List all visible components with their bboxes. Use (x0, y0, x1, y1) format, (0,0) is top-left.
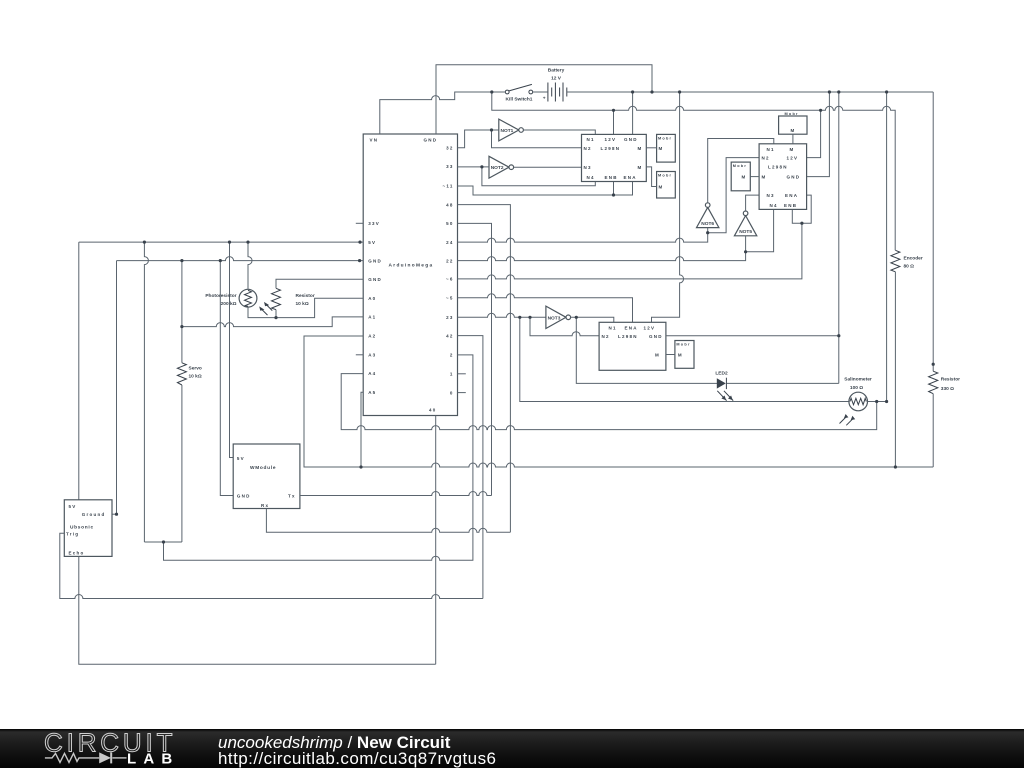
svg-text:Photoresistor: Photoresistor (205, 293, 236, 299)
wire pin33 to NOT2 input (458, 166, 490, 168)
svg-text:M: M (655, 352, 660, 357)
svg-text:NOT5: NOT5 (739, 229, 752, 235)
wire NOT5 node to L298N2 N4 (746, 209, 774, 251)
junction R330 top (932, 363, 935, 366)
junction A1 servo node (180, 325, 183, 328)
svg-text:33: 33 (446, 164, 454, 169)
svg-text:Mobr: Mobr (658, 137, 672, 141)
svg-text:GND: GND (787, 175, 801, 180)
wire salinometer right to GND bus (868, 401, 887, 403)
svg-text:A2: A2 (368, 334, 376, 339)
resistor R4 Servo (177, 363, 202, 385)
wire Arduino GND top to battery minus (436, 65, 652, 134)
svg-text:2: 2 (450, 353, 454, 358)
svg-text:0: 0 (450, 390, 454, 395)
svg-text:Tx: Tx (288, 494, 296, 499)
wire GND rail to L298N2 GND pin (807, 92, 830, 177)
wire battery minus GND rail (567, 91, 933, 93)
svg-text:GND: GND (624, 137, 638, 142)
wire NOT1 input node down to L298N1 N2 (492, 130, 582, 148)
svg-text:A5: A5 (368, 390, 376, 395)
svg-text:N3: N3 (584, 165, 592, 170)
inverter NOT5 (734, 211, 756, 236)
wire pin ~5 to L298N3 ENA (458, 294, 633, 323)
motor driver U4 L298N (599, 322, 666, 370)
svg-text:~5: ~5 (446, 296, 454, 301)
wire 5V down to Ultrasonic (78, 242, 80, 500)
motor driver U2 L298N (582, 134, 647, 181)
svg-text:GND: GND (424, 137, 438, 142)
wire pin40 down (435, 416, 437, 665)
svg-text:VN: VN (370, 137, 379, 142)
junction ultrasonic ground (115, 513, 118, 516)
wire L298N1 M1 to motor M1 (646, 147, 656, 149)
svg-text:Mobr: Mobr (658, 174, 672, 178)
svg-text:N2: N2 (584, 146, 592, 151)
wire 12V rail to L298N2 12V pin (807, 110, 821, 157)
svg-text:N4: N4 (587, 175, 595, 180)
svg-text:Trig: Trig (66, 532, 79, 537)
wire R330 bottom to A2 A5 net (932, 394, 934, 467)
svg-text:48: 48 (446, 202, 454, 207)
svg-text:12V: 12V (605, 137, 617, 142)
wire motor M3 to L298N2 M left (750, 176, 759, 178)
svg-text:LED2: LED2 (715, 371, 728, 377)
svg-text:A4: A4 (368, 371, 376, 376)
svg-text:GND: GND (368, 277, 382, 282)
junction GND row servo (180, 259, 183, 262)
svg-text:ENB: ENB (784, 203, 797, 208)
svg-text:N1: N1 (767, 147, 775, 152)
junction L298N3 GND bus (837, 334, 840, 337)
motor M3 (731, 162, 750, 191)
svg-text:80 Ω: 80 Ω (904, 263, 915, 269)
svg-text:M: M (678, 352, 683, 357)
wire GND rail to L298N3 12V pin (652, 92, 684, 322)
junction salinometer A4 bus (875, 400, 878, 403)
wire NOT2 output to L298N1 N3 (514, 166, 582, 168)
wire Ultrasonic Echo to pin40 (79, 556, 436, 664)
junction NOT2 input node (480, 165, 483, 168)
footer url text (218, 749, 496, 768)
wire NOT1 output to L298N1 N1 (523, 130, 595, 134)
svg-text:L298N: L298N (601, 146, 621, 151)
junction 5V row photoresistor (246, 241, 249, 244)
photoresistor R5 (205, 289, 272, 315)
svg-text:N4: N4 (770, 203, 778, 208)
svg-text:Mobr: Mobr (676, 343, 690, 347)
switch SW1 Kill Switch1 (505, 84, 532, 102)
wire GND branch to WModule GND (220, 261, 233, 496)
motor M1 (657, 134, 676, 162)
svg-text:+: + (543, 96, 546, 101)
wire NOT6 node to L298N2 N2 (708, 158, 759, 233)
wire pin32 to NOT1 input and N2 (458, 130, 499, 148)
wire ENB riser (613, 182, 615, 196)
svg-text:GND: GND (649, 334, 663, 339)
junction 5V row branch A (143, 241, 146, 244)
inverter NOT1 (499, 119, 524, 141)
motor M5 (779, 112, 807, 134)
wire pin50 down (458, 223, 492, 495)
junction NOT6 input node (706, 231, 709, 234)
junction battery plus to 12V rail (490, 90, 493, 93)
junction encoder bottom (894, 465, 897, 468)
svg-text:Encoder: Encoder (904, 255, 923, 261)
pin stub 0 (458, 392, 466, 394)
wire L298N1 M2 to motor M2 (646, 167, 656, 187)
LED LED2 (715, 371, 733, 401)
svg-text:1: 1 (450, 372, 454, 377)
wire pin23 node down to salinometer left (520, 317, 849, 401)
svg-text:40: 40 (429, 408, 437, 413)
wire 5V row (79, 241, 363, 243)
svg-text:NOT1: NOT1 (501, 128, 514, 134)
svg-text:32: 32 (446, 145, 454, 150)
wire GND down to Ultrasonic Ground (116, 261, 118, 515)
junction 5V row WModule (228, 241, 231, 244)
svg-text:GND: GND (237, 494, 251, 499)
svg-text:Ubsonic: Ubsonic (70, 525, 94, 531)
wire A4 bus to salinometer node (341, 374, 877, 430)
svg-text:Mobr: Mobr (733, 164, 747, 168)
wire photoresistor bottom to A0 (248, 298, 363, 317)
inverter NOT3 (546, 306, 571, 328)
svg-text:Mobr: Mobr (785, 112, 799, 116)
svg-text:LAB: LAB (127, 751, 172, 768)
svg-text:5V: 5V (69, 504, 77, 509)
junction 12V rail L298N1 (612, 109, 615, 112)
wire pin48 down (458, 205, 511, 533)
wire pin24 to NOT6 node (458, 233, 708, 242)
wire Ultrasonic Ground stub (112, 513, 117, 515)
svg-text:A0: A0 (368, 296, 376, 301)
wire L298N1 GND riser (632, 92, 634, 134)
wire L298N1 12V riser (613, 110, 615, 134)
junction GND rail L298N1 GND (631, 90, 634, 93)
svg-text:WModule: WModule (250, 465, 276, 471)
wire pin42 down to Trig (458, 336, 483, 599)
svg-text:A3: A3 (368, 352, 376, 357)
junction NOT5 input node (744, 250, 747, 253)
svg-text:Echo: Echo (69, 551, 85, 556)
svg-text:10 kΩ: 10 kΩ (296, 301, 309, 307)
svg-text:23: 23 (446, 315, 454, 320)
svg-text:NOT6: NOT6 (701, 221, 714, 227)
svg-text:Resistor: Resistor (941, 376, 960, 382)
svg-text:N3: N3 (767, 193, 775, 198)
junction A5 join (359, 465, 362, 468)
wire GND row to servo top (181, 261, 183, 363)
svg-text:24: 24 (446, 240, 454, 245)
wire pin ~11 to L298N1 ENB ENA (458, 182, 633, 196)
wire WModule Tx to pin50 (300, 492, 492, 496)
junction GND rail bus B (885, 90, 888, 93)
svg-text:M: M (638, 146, 643, 151)
svg-text:33V: 33V (368, 221, 380, 226)
resistor R6 10k (272, 288, 315, 309)
svg-text:Kill Switch1: Kill Switch1 (506, 97, 533, 103)
junction A0 resistor node (274, 316, 277, 319)
wire L298N3 GND to bus (666, 335, 839, 337)
photoresistor salinometer R1 (840, 376, 872, 425)
junction 5V pin terminal (358, 241, 361, 244)
wire NOT5 output to L298N2 N3 (746, 195, 760, 211)
svg-text:M: M (790, 147, 795, 152)
svg-text:ArduinoMega: ArduinoMega (389, 262, 434, 268)
junction ENB tie (612, 193, 615, 196)
svg-text:L298N: L298N (618, 334, 638, 339)
svg-text:ENA: ENA (625, 326, 638, 331)
wire NOT6 input stub (707, 228, 709, 233)
svg-text:M: M (638, 165, 643, 170)
wire 10k bottom join (275, 310, 277, 318)
wire NOT5 input stub (745, 236, 747, 252)
pin stub A3 (356, 354, 363, 356)
svg-text:A1: A1 (368, 315, 376, 320)
wire pin ~6 to L298N2 ENA ENB (458, 223, 802, 279)
svg-text:5V: 5V (237, 456, 245, 461)
module U5 WModule (233, 444, 300, 509)
wire 5V branch to WModule 5V (230, 242, 234, 457)
wire 5V branch to servo U node (144, 242, 148, 542)
wire NOT2 input node down to L298N1 N4 (482, 167, 595, 186)
junction GND rail Arduino GND (650, 90, 653, 93)
svg-text:NOT3: NOT3 (548, 315, 561, 321)
junction GND rail L298N2 GND (828, 90, 831, 93)
junction NOT1 input node (490, 128, 493, 131)
wire 10k top to GND2 (276, 279, 363, 288)
wire pin23 node to L298N3 N2 (530, 317, 599, 335)
wire LED2 cathode to GND bus (727, 382, 839, 384)
svg-text:NOT2: NOT2 (491, 165, 504, 171)
inverter NOT6 (697, 203, 719, 228)
svg-text:50: 50 (446, 221, 454, 226)
svg-text:~11: ~11 (442, 184, 453, 189)
wire GND bus to LED2 cathode and L298N3 GND (838, 92, 840, 383)
pin stub 1 (458, 373, 466, 375)
svg-text:ENB: ENB (605, 175, 618, 180)
wire A5 join (361, 392, 363, 467)
wire Ultrasonic Trig to pin42 (60, 533, 483, 598)
svg-text:10 kΩ: 10 kΩ (189, 374, 202, 380)
svg-text:200 kΩ: 200 kΩ (221, 301, 237, 307)
junction pin23 node A (518, 316, 521, 319)
wire L298N2 ENA ENB tie (792, 195, 811, 223)
svg-text:M: M (791, 128, 796, 133)
wire pin22 to NOT5 node (458, 252, 746, 261)
svg-text:GND: GND (368, 258, 382, 263)
svg-text:12V: 12V (644, 326, 656, 331)
wire GND row (117, 257, 364, 261)
svg-text:M: M (659, 146, 664, 151)
footer bar (0, 729, 1024, 768)
module U6 Ultrasonic (64, 500, 112, 557)
resistor R2 Encoder (891, 250, 923, 271)
wire L298N2 M top to motor M5 (792, 134, 794, 144)
svg-text:ENA: ENA (785, 193, 798, 198)
wire NOT3 output to L298N3 N1 (571, 317, 614, 322)
svg-text:42: 42 (446, 333, 454, 338)
wire 12V rail (492, 92, 895, 250)
junction GND rail bus A (837, 90, 840, 93)
svg-text:22: 22 (446, 258, 454, 263)
junction ENA ENB tie L298N2 (800, 222, 803, 225)
svg-text:5V: 5V (368, 240, 376, 245)
svg-text:12V: 12V (787, 156, 799, 161)
junction GND row WModule (219, 259, 222, 262)
wire NOT3 output node down to LED2 anode (576, 317, 717, 383)
junction servo 5V U node (162, 540, 165, 543)
footer logo CIRCUIT LAB (0, 729, 220, 768)
svg-text:Ground: Ground (82, 512, 106, 517)
wire 5V to photoresistor top (248, 242, 252, 289)
svg-text:M: M (762, 175, 767, 180)
svg-text:Salinometer: Salinometer (844, 376, 872, 382)
svg-text:N2: N2 (602, 334, 610, 339)
microcontroller U1 ArduinoMega (363, 134, 457, 416)
svg-text:Servo: Servo (189, 366, 202, 372)
junction GND rail L298N3 branch (678, 90, 681, 93)
junction NOT3 output node (575, 316, 578, 319)
wire servo bottom to U node (181, 385, 183, 542)
svg-text:Resistor: Resistor (296, 293, 315, 299)
pin stub 33V (356, 222, 363, 224)
svg-text:N2: N2 (762, 156, 770, 161)
wire U bottom (144, 541, 182, 543)
motor M2 (657, 172, 676, 199)
wire A1 to servo node (182, 317, 363, 327)
footer title text (218, 733, 450, 753)
svg-text:Battery: Battery (548, 67, 565, 73)
junction 12V rail L298N2 (819, 109, 822, 112)
wire pin23 to NOT3 input (458, 313, 546, 317)
battery BAT1 (543, 67, 567, 101)
junction salinometer GND bus (885, 400, 888, 403)
svg-text:N1: N1 (587, 137, 595, 142)
wire A2 to encoder and R330 bottom (304, 336, 933, 467)
wire WModule Rx to pin48 (266, 509, 510, 533)
svg-text:M: M (742, 175, 747, 180)
svg-text:12 V: 12 V (551, 75, 562, 81)
svg-text:M: M (659, 185, 664, 190)
motor driver U3 L298N (759, 144, 807, 210)
wire switch to battery (533, 91, 548, 93)
svg-text:L298N: L298N (768, 165, 788, 170)
wire GND rail corner down to R330 (932, 92, 934, 371)
resistor R3 330 (929, 371, 961, 394)
wire L298N3 M to motor M4 (666, 354, 675, 356)
wire U node to pin2 (164, 355, 473, 560)
svg-text:ENA: ENA (624, 175, 637, 180)
wire encoder bottom lead (894, 272, 896, 467)
inverter NOT2 (489, 156, 514, 178)
junction GND pin terminal (358, 259, 361, 262)
wire NOT6 output to L298N2 N1 (708, 139, 774, 203)
svg-text:330 Ω: 330 Ω (941, 386, 954, 392)
svg-text:~6: ~6 (446, 277, 454, 282)
junction pin23 node B (528, 316, 531, 319)
svg-text:Rx: Rx (261, 503, 269, 508)
motor M4 (675, 341, 694, 369)
wire VN to switch (380, 92, 506, 134)
wire GND bus to salinometer right (886, 92, 888, 402)
svg-text:N1: N1 (609, 326, 617, 331)
svg-text:100 Ω: 100 Ω (850, 385, 863, 391)
